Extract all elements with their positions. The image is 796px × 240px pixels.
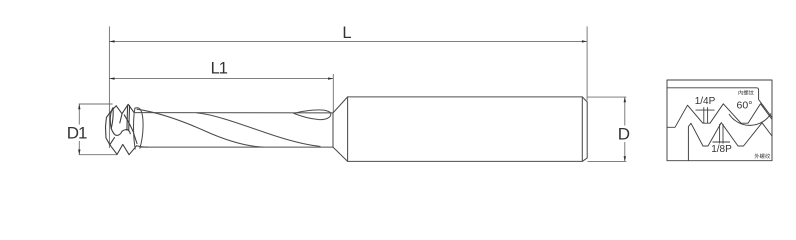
external thread profile bbox=[688, 123, 772, 161]
svg-text:L: L bbox=[342, 24, 351, 42]
1/8P dimension ticks bbox=[713, 124, 731, 144]
svg-text:1/4P: 1/4P bbox=[695, 96, 716, 107]
drill tip mid U line bbox=[111, 129, 122, 136]
dimension D1 arrowheads bbox=[78, 104, 80, 155]
flute end face bbox=[332, 113, 334, 147]
flute cylinder top edge bbox=[135, 112, 333, 114]
dimension L1 arrowheads bbox=[109, 77, 333, 79]
helix line gamma bbox=[197, 113, 320, 146]
dimension L line bbox=[109, 40, 587, 42]
dimension L arrowheads bbox=[109, 40, 587, 42]
svg-text:L1: L1 bbox=[211, 60, 228, 78]
svg-text:内螺纹: 内螺纹 bbox=[738, 88, 755, 96]
taper top bbox=[333, 97, 348, 113]
flute start lens left bow bbox=[134, 108, 136, 149]
drill tip gash line bbox=[110, 138, 115, 145]
helix line alpha bbox=[137, 109, 263, 147]
shank end inner line bbox=[581, 97, 583, 161]
D1 extension line bottom bbox=[79, 154, 118, 156]
extension line L1 right bbox=[332, 74, 334, 113]
D extension line top bbox=[588, 96, 627, 98]
drill tip left edge bbox=[106, 106, 117, 145]
internal thread profile bbox=[667, 104, 772, 128]
dimension D label bbox=[616, 126, 634, 143]
flute start lens right bow bbox=[135, 108, 143, 148]
svg-text:60°: 60° bbox=[737, 100, 753, 112]
svg-text:外螺纹: 外螺纹 bbox=[754, 152, 771, 160]
dimension D1 label bbox=[65, 125, 90, 142]
shank outline bbox=[348, 97, 588, 161]
D extension line bottom bbox=[588, 160, 627, 162]
dimension D1 line bbox=[78, 104, 80, 155]
svg-text:D1: D1 bbox=[67, 123, 87, 142]
dimension D line bbox=[624, 97, 626, 161]
drill tip chisel sliver bbox=[110, 108, 113, 129]
dimension D arrowheads bbox=[624, 97, 626, 161]
drill tip bottom W bbox=[110, 144, 137, 154]
dimension L1 line bbox=[109, 78, 333, 80]
drill tip valley flank line bbox=[120, 114, 122, 123]
flute heel bump bbox=[137, 146, 149, 147]
detail box bbox=[667, 80, 772, 161]
drill tip outline top M bbox=[116, 104, 134, 113]
drill body group bbox=[106, 97, 588, 161]
extension line left (L/L1) bbox=[108, 26, 110, 148]
D1 extension line top bbox=[79, 103, 113, 105]
detail box frame bbox=[667, 80, 772, 161]
internal thread callout boundary bbox=[667, 88, 772, 118]
svg-text:D: D bbox=[618, 125, 630, 144]
flute cylinder bottom edge bbox=[140, 146, 333, 148]
svg-text:1/8P: 1/8P bbox=[711, 144, 732, 155]
taper bottom bbox=[333, 147, 348, 161]
drill tip gash curve bbox=[124, 115, 137, 144]
flute runout leaf bbox=[294, 110, 331, 120]
1/4P dimension ticks bbox=[696, 107, 715, 123]
drill tip flank pair lines bbox=[126, 106, 129, 131]
drill tip mid bump bbox=[122, 130, 130, 134]
60 degree arc bbox=[729, 114, 771, 126]
extension line right (L) bbox=[586, 26, 588, 100]
